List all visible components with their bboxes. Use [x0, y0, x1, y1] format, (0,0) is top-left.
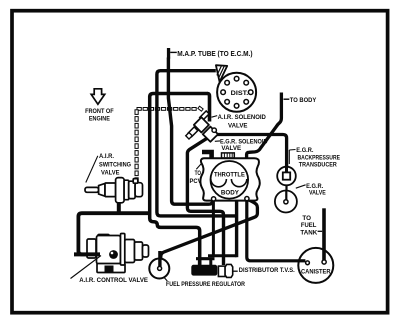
wire: throttle body underside riser [235, 201, 238, 258]
svg-text:TO: TO [195, 170, 201, 177]
canister [298, 248, 333, 283]
svg-text:BACKPRESSURE: BACKPRESSURE [298, 154, 341, 161]
throttle body port circles [212, 197, 216, 201]
fuel pressure regulator [149, 259, 169, 279]
throttle body blob [200, 158, 259, 200]
svg-text:TRANSDUCER: TRANSDUCER [299, 162, 337, 169]
wire: drop to A.I.R. solenoid valve [208, 94, 210, 122]
svg-text:E.G.R.: E.G.R. [296, 147, 313, 154]
wire: M.A.P. tube down to throttle body left port [168, 58, 212, 205]
svg-text:A.I.R. SOLENOID: A.I.R. SOLENOID [218, 114, 267, 121]
svg-text:THROTTLE: THROTTLE [214, 172, 245, 179]
fuel rail bar [191, 265, 217, 276]
throttle body top ribbed port [222, 153, 235, 158]
A.I.R. control valve [87, 234, 149, 273]
A.I.R. solenoid label [212, 116, 218, 118]
A.I.R. switching valve [85, 178, 143, 203]
wire: switching valve run to left stack [78, 213, 148, 254]
distributor U1 [217, 73, 256, 112]
wire: to fuel tank line [322, 208, 326, 260]
distributor T.V.S. fitting [218, 266, 225, 276]
wire: to body hose from throttle body top [247, 93, 282, 159]
A.I.R. solenoid valve body [194, 117, 209, 132]
svg-text:FUEL PRESSURE REGULATOR: FUEL PRESSURE REGULATOR [166, 281, 245, 288]
svg-text:TO: TO [302, 215, 311, 222]
distributor vacuum advance connector [216, 65, 227, 82]
wire: throttle body left port down to bracket [212, 201, 215, 256]
wire: E.G.R. solenoid to backpressure transducer [216, 135, 287, 173]
svg-text:M.A.P. TUBE (TO E.C.M.): M.A.P. TUBE (TO E.C.M.) [177, 51, 252, 58]
TO PCV label [196, 164, 201, 169]
E.G.R. valve [275, 191, 297, 213]
svg-text:PCV: PCV [190, 178, 203, 185]
svg-text:FRONT OF: FRONT OF [85, 108, 114, 115]
svg-text:VALVE: VALVE [101, 169, 120, 176]
wire: A.I.R. solenoid hose, stair-step down to regulator bracket [150, 94, 208, 266]
svg-text:SWITCHING: SWITCHING [99, 161, 131, 168]
wire: throttle body right port down to canister [247, 201, 305, 261]
M.A.P. tube tick [167, 48, 170, 59]
front of engine arrow [91, 89, 105, 104]
wire: switching valve stub [117, 198, 121, 213]
svg-text:DISTRIBUTOR T.V.S.: DISTRIBUTOR T.V.S. [239, 267, 295, 274]
to body tick and label [284, 98, 290, 100]
throttle body black elbow stub [202, 150, 214, 158]
solenoid port circle [212, 128, 216, 132]
svg-text:TO BODY: TO BODY [290, 97, 317, 104]
A.I.R. switching valve label [86, 156, 98, 183]
svg-text:VALVE: VALVE [309, 189, 326, 196]
solenoid nozzle [188, 127, 198, 137]
E.G.R. solenoid label [215, 140, 220, 142]
svg-text:FUEL: FUEL [301, 222, 317, 229]
svg-text:A.I.R. CONTROL VALVE: A.I.R. CONTROL VALVE [79, 277, 148, 284]
svg-text:DIST.: DIST. [231, 91, 249, 97]
svg-text:CANISTER: CANISTER [301, 268, 331, 275]
wire: distributor hose, left vertical and bottom run to canister riser [157, 71, 237, 216]
svg-text:BODY: BODY [221, 189, 240, 196]
svg-text:TANK: TANK [300, 229, 317, 236]
E.G.R. solenoid valve body [203, 127, 218, 142]
wire: transducer to E.G.R. valve [285, 179, 287, 200]
wire: regulator bracket [196, 257, 215, 260]
svg-text:VALVE: VALVE [228, 122, 248, 129]
wire: throttle body right port to fuel pressure regulator [161, 200, 258, 263]
A.I.R. control valve label [71, 256, 102, 279]
dashed manifold edge: vertical column [135, 110, 138, 196]
throttle bores [211, 161, 249, 199]
svg-text:ENGINE: ENGINE [89, 115, 111, 122]
svg-text:A.I.R.: A.I.R. [99, 153, 114, 160]
A.I.R. solenoid valve stem [200, 111, 209, 120]
wire: cross link above bracket [208, 254, 237, 257]
svg-text:VALVE: VALVE [221, 145, 241, 152]
E.G.R. backpressure transducer [277, 167, 296, 186]
dashed manifold edge: horizontal row [137, 106, 203, 111]
wire: E.G.R. solenoid down to T.V.S. fitting [187, 138, 223, 265]
